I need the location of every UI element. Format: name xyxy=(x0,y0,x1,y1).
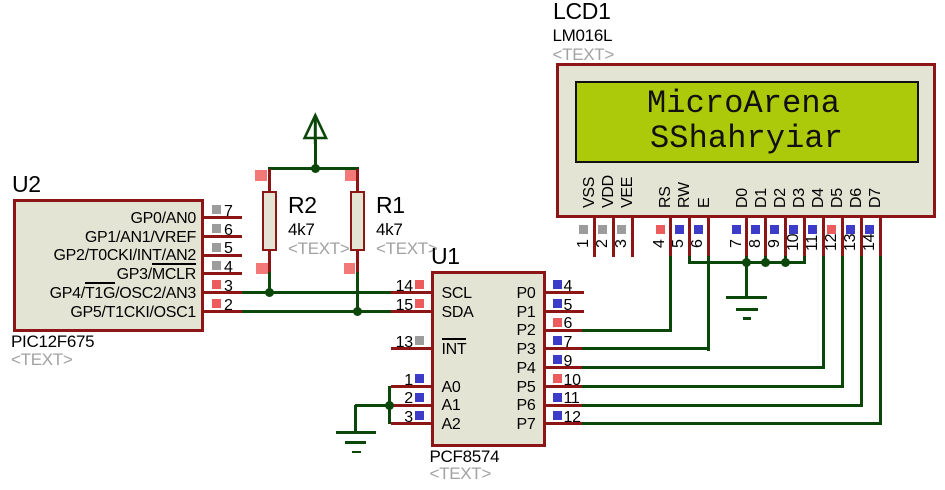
label U1 &lt;TEXT&gt; xyxy=(430,465,492,482)
wire R1 to SDA net xyxy=(356,272,359,313)
LCD1 pin number 2 xyxy=(594,239,612,248)
LCD1 pin 11 (D4) stub xyxy=(822,218,825,257)
R1 top lead xyxy=(356,169,359,193)
LCD1 pin 3 (VEE) stub xyxy=(631,218,634,257)
LCD1 pin 7 (D0) stub xyxy=(745,218,748,257)
wire D3 drop xyxy=(803,256,806,264)
U2 pin number 6 xyxy=(224,223,233,239)
U1 pin 11 (P6) stub xyxy=(546,404,585,407)
U1 pin 10 (P5) stub xyxy=(546,385,585,388)
U2 pin number 7 xyxy=(224,204,233,220)
LCD1 pin name D1 xyxy=(753,188,771,208)
LCD1 pin name VEE xyxy=(619,176,637,207)
LCD1 pin name E xyxy=(696,197,714,207)
R2 top lead xyxy=(268,169,271,193)
wire D6 vertical xyxy=(860,256,863,407)
LCD1 pin name D7 xyxy=(867,188,885,208)
LCD1 pin name D0 xyxy=(734,188,752,208)
LCD1 pin name VSS xyxy=(581,176,599,207)
wire A1 to ground horizontal xyxy=(355,404,391,407)
U1 pin 2 state square xyxy=(415,393,424,402)
wire ground drop xyxy=(354,405,357,432)
U1 pin name SCL xyxy=(442,286,472,302)
junction rail / D0 / ground xyxy=(742,258,751,267)
R1 top terminal square xyxy=(345,170,357,182)
U2 pin 2 stub xyxy=(204,310,243,313)
label R1 &lt;TEXT&gt; xyxy=(376,240,438,257)
wire D5 vertical xyxy=(841,256,844,388)
U1 pin 15 state square xyxy=(415,299,424,308)
wire RS to U1.P2 xyxy=(582,329,672,332)
U1 pin number 12 xyxy=(564,410,581,426)
LCD1 pin 8 (D1) stub xyxy=(764,218,767,257)
U2 pin 2 state square xyxy=(212,299,221,308)
LCD1 pin 12 state square xyxy=(827,225,836,234)
wire D7 vertical xyxy=(879,256,882,426)
U1 pin 12 (P7) stub xyxy=(546,422,585,425)
R1 bottom lead xyxy=(356,250,359,273)
U1 pin name SDA xyxy=(442,305,474,321)
U1 pin 3 state square xyxy=(415,411,424,420)
LCD1 pin 2 (VDD) stub xyxy=(612,218,615,257)
U1 pin 4 (P0) stub xyxy=(546,291,585,294)
label U2 &lt;TEXT&gt; xyxy=(11,351,73,368)
U1 pin 6 (P2) stub xyxy=(546,329,585,332)
U1 pin name P3 xyxy=(336,342,536,358)
junction A1 / address bus xyxy=(385,401,394,410)
label R1 value 4k7 xyxy=(376,221,403,238)
U2 pin 7 state square xyxy=(212,205,221,214)
wire D1 drop xyxy=(764,256,767,264)
R1 bottom terminal square xyxy=(344,263,356,275)
U1 pin name P1 xyxy=(336,305,536,321)
label LCD1 &lt;TEXT&gt; xyxy=(553,46,615,63)
U2 pin 4 state square xyxy=(212,261,221,270)
LCD1 pin name D3 xyxy=(791,188,809,208)
junction VDD rail / power stem xyxy=(311,164,320,173)
LCD1 pin 1 state square xyxy=(579,225,588,234)
label LM016L xyxy=(553,27,613,44)
LCD1 pin 13 (D6) stub xyxy=(860,218,863,257)
resistor R2 body xyxy=(262,191,277,251)
LCD1 pin 14 state square xyxy=(865,225,874,234)
LCD LCD1 LM016L body xyxy=(556,63,936,218)
U1 pin name P4 xyxy=(336,361,536,377)
LCD1 pin name D2 xyxy=(772,188,790,208)
U1 pin 7 state square xyxy=(553,336,562,345)
wire SDA net U2.GP5 to U1.SDA xyxy=(242,310,392,313)
wire D7 to U1.P7 xyxy=(582,422,882,425)
LCD1 pin 6 (E) stub xyxy=(707,218,710,257)
U1 pin 6 state square xyxy=(553,318,562,327)
resistor R1 body xyxy=(350,191,365,251)
LCD1 pin 12 (D5) stub xyxy=(841,218,844,257)
wire E to U1.P3 xyxy=(582,347,710,350)
U2 pin number 4 xyxy=(224,260,233,276)
LCD1 pin number 5 xyxy=(670,239,688,248)
R2 top terminal square xyxy=(255,170,267,182)
U1 pin 5 (P1) stub xyxy=(546,310,585,313)
U1 pin 9 state square xyxy=(553,355,562,364)
U1 pin 14 state square xyxy=(415,280,424,289)
U1 pin name A2 xyxy=(442,417,461,433)
U1 pin number 6 xyxy=(564,316,573,332)
label LCD1 designator xyxy=(553,0,611,23)
U2 pin name GP1/AN1/VREF xyxy=(0,230,196,246)
U2 pin 6 stub xyxy=(204,235,243,238)
IC U1 PCF8574 body xyxy=(431,271,546,447)
label U1 designator xyxy=(431,245,460,268)
LCD1 pin 14 (D7) stub xyxy=(879,218,882,257)
U1 pin 9 (P4) stub xyxy=(546,366,585,369)
label R1 designator xyxy=(376,194,405,217)
IC U2 PIC12F675 body xyxy=(13,199,204,332)
U2 pin 4 stub xyxy=(204,272,243,275)
U1 pin number 15 xyxy=(213,298,413,314)
LCD1 pin number 11 xyxy=(804,234,822,250)
U2 pin number 2 xyxy=(224,298,233,314)
LCD1 pin 4 (RS) stub xyxy=(669,218,672,257)
label R2 designator xyxy=(288,194,317,217)
wire rail to ground xyxy=(745,262,748,297)
U1 pin 10 state square xyxy=(553,374,562,383)
LCD1 pin number 1 xyxy=(575,239,593,248)
LCD1 pin 5 (RW) stub xyxy=(688,218,691,257)
U1 pin name P2 xyxy=(336,323,536,339)
wire R2 to SCL net xyxy=(268,272,271,294)
U1 pin 4 state square xyxy=(553,280,562,289)
U2 pin name GP4/ span class="ov">T1G /span>/OSC2/AN3 xyxy=(0,286,196,302)
VDD rail wire xyxy=(268,167,359,170)
LCD screen xyxy=(575,81,919,163)
U2 pin name GP3/ span class="ov">MCLR /span> xyxy=(0,267,196,283)
junction rail / D1 xyxy=(761,258,770,267)
LCD1 pin name D6 xyxy=(848,188,866,208)
label U2 designator xyxy=(12,173,41,196)
wire D6 to U1.P6 xyxy=(582,404,863,407)
label R2 value 4k7 xyxy=(288,221,315,238)
LCD1 pin name RS xyxy=(657,186,675,208)
U1 pin number 14 xyxy=(213,279,413,295)
LCD1 pin number 3 xyxy=(613,239,631,248)
LCD1 pin 10 (D3) stub xyxy=(803,218,806,257)
wire D0 drop xyxy=(745,256,748,264)
LCD1 pin number 12 xyxy=(823,233,841,250)
LCD1 pin 10 state square xyxy=(789,225,798,234)
label PIC12F675 xyxy=(11,333,94,350)
U1 pin number 2 xyxy=(213,391,413,407)
LCD1 pin name VDD xyxy=(600,175,618,208)
U1 pin name P7 xyxy=(336,417,536,433)
U1 pin 1 (A0) stub xyxy=(391,385,431,388)
LCD1 pin 1 (VSS) stub xyxy=(593,218,596,257)
U1 pin 12 state square xyxy=(553,411,562,420)
U2 pin name GP2/T0CKI/INT/AN2 xyxy=(0,248,196,264)
U1 pin 15 (SDA) stub xyxy=(391,310,431,313)
U1 pin number 9 xyxy=(564,354,573,370)
U1 pin 3 (A2) stub xyxy=(391,422,431,425)
U1 pin name P0 xyxy=(336,286,536,302)
U1 pin 14 (SCL) stub xyxy=(391,291,431,294)
LCD display text line 2 SShahryiar xyxy=(650,123,843,155)
wire RW drop xyxy=(688,256,691,264)
LCD1 pin 11 state square xyxy=(808,225,817,234)
wire SCL net U2.GP4 to U1.SCL xyxy=(242,291,392,294)
ground symbol (U1 address pins) xyxy=(336,431,376,434)
LCD1 pin number 7 xyxy=(728,239,746,248)
LCD1 pin 2 state square xyxy=(598,225,607,234)
LCD1 pin name RW xyxy=(676,182,694,208)
U1 pin 11 state square xyxy=(553,393,562,402)
U1 pin 5 state square xyxy=(553,299,562,308)
LCD1 pin 9 state square xyxy=(770,225,779,234)
U1 pin name A1 xyxy=(442,398,461,414)
U1 pin 2 (A1) stub xyxy=(391,404,431,407)
U1 pin number 13 xyxy=(213,335,413,351)
U1 pin 1 state square xyxy=(415,374,424,383)
wire E vertical xyxy=(707,256,710,352)
LCD1 pin number 10 xyxy=(785,233,803,250)
U1 pin name A0 xyxy=(442,380,461,396)
label R2 &lt;TEXT&gt; xyxy=(288,240,350,257)
LCD1 pin 8 state square xyxy=(751,225,760,234)
U1 pin name P5 xyxy=(336,380,536,396)
U1 pin number 1 xyxy=(213,373,413,389)
LCD1 pin number 8 xyxy=(747,239,765,248)
U2 pin 3 stub xyxy=(204,291,243,294)
U1 pin number 10 xyxy=(564,373,581,389)
power symbol VDD arrow xyxy=(300,108,332,144)
LCD1 pin 9 (D2) stub xyxy=(784,218,787,257)
LCD1 pin 3 state square xyxy=(617,225,626,234)
label PCF8574 xyxy=(430,448,500,465)
LCD1 pin number 9 xyxy=(766,239,784,248)
LCD1 pin 7 state square xyxy=(732,225,741,234)
U1 pin name P6 xyxy=(336,398,536,414)
junction SDA / R1 xyxy=(353,307,362,316)
U1 pin name INT xyxy=(442,342,467,358)
wire ground rail RW-D3 xyxy=(690,261,806,264)
U1 pin number 4 xyxy=(564,279,573,295)
junction SCL / R2 xyxy=(265,288,274,297)
LCD1 pin name D5 xyxy=(829,188,847,208)
LCD1 pin name D4 xyxy=(810,188,828,208)
U1 pin number 3 xyxy=(213,410,413,426)
R2 bottom terminal square xyxy=(256,263,268,275)
LCD1 pin number 13 xyxy=(842,233,860,250)
U1 pin number 11 xyxy=(564,391,580,407)
wire A0-A2 bus vertical xyxy=(388,386,391,424)
U2 pin number 3 xyxy=(224,279,233,295)
R2 bottom lead xyxy=(268,250,271,273)
U2 pin number 5 xyxy=(224,241,233,257)
LCD1 pin 4 state square xyxy=(656,225,665,234)
U2 pin name GP5/T1CKI/OSC1 xyxy=(0,305,196,321)
LCD1 pin 13 state square xyxy=(846,225,855,234)
U2 pin 7 stub xyxy=(204,216,243,219)
wire D2 drop xyxy=(784,256,787,264)
U2 pin 5 stub xyxy=(204,254,243,257)
LCD display text line 1 MicroArena xyxy=(647,88,840,120)
LCD1 pin number 6 xyxy=(689,239,707,248)
LCD1 pin 6 state square xyxy=(694,225,703,234)
LCD1 pin 5 state square xyxy=(675,225,684,234)
ground symbol (LCD data rail) xyxy=(726,296,767,299)
junction rail / D2 xyxy=(781,258,790,267)
U1 pin 13 state square xyxy=(415,336,424,345)
U2 pin 3 state square xyxy=(212,280,221,289)
U1 pin 13 (INT) stub xyxy=(391,347,431,350)
U1 pin 7 (P3) stub xyxy=(546,347,585,350)
wire D4 to U1.P4 xyxy=(582,366,825,369)
U1 pin number 7 xyxy=(564,335,573,351)
wire D4 vertical xyxy=(822,256,825,370)
LCD1 pin number 4 xyxy=(651,239,669,248)
U2 pin 6 state square xyxy=(212,224,221,233)
LCD1 pin number 14 xyxy=(861,233,879,250)
wire D5 to U1.P5 xyxy=(582,385,844,388)
wire RS vertical xyxy=(669,256,672,333)
U1 pin number 5 xyxy=(564,298,573,314)
U2 pin 5 state square xyxy=(212,243,221,252)
U2 pin name GP0/AN0 xyxy=(0,211,196,227)
power stem wire xyxy=(314,140,317,169)
